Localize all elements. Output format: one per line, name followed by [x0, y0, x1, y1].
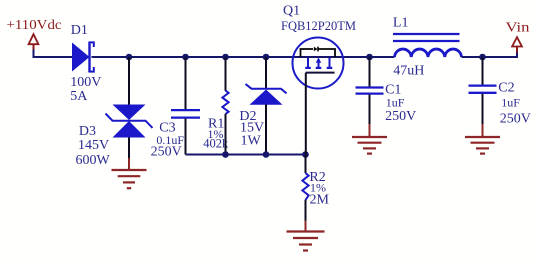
label R2 value 2M — [310, 193, 330, 208]
capacitor C1 — [356, 88, 384, 94]
label D2 value 15V — [240, 121, 264, 136]
junction dot D2 tap — [263, 54, 270, 61]
label D1 value 5A — [70, 89, 88, 104]
label C3 designator — [159, 120, 175, 135]
svg-text:5A: 5A — [70, 89, 88, 104]
wire C3 branch upper — [185, 57, 187, 109]
wire C1 to ground — [369, 95, 371, 137]
Q1 body black top bar — [301, 47, 336, 57]
TVS diode D3 — [106, 105, 153, 138]
label C2 designator — [498, 80, 514, 95]
power arrow Vin — [512, 37, 522, 52]
wire D2 branch upper — [265, 57, 267, 88]
ground below R2 — [287, 232, 325, 251]
label L1 designator — [393, 16, 409, 31]
svg-text:Q1: Q1 — [283, 3, 300, 18]
wire bottom rail C3 to R2 node — [186, 154, 306, 156]
svg-text:47uH: 47uH — [393, 63, 424, 78]
diode D1 — [72, 42, 94, 73]
power arrow +110Vdc — [29, 34, 39, 50]
label C2 value 250V — [500, 112, 531, 127]
svg-text:C2: C2 — [498, 80, 514, 95]
label C3 value 0.1uF — [156, 133, 184, 147]
resistor R2 — [302, 155, 308, 222]
svg-text:145V: 145V — [78, 138, 109, 153]
Q1 source contact — [305, 58, 311, 68]
junction dot C2 tap — [479, 54, 486, 61]
svg-text:1W: 1W — [241, 133, 262, 148]
label D1 value 100V — [70, 75, 101, 90]
wire C1 branch upper — [369, 57, 371, 87]
svg-text:2M: 2M — [310, 193, 330, 208]
wire R1 branch upper — [225, 57, 227, 91]
node Vin label — [506, 21, 530, 36]
label C3 value 250V — [151, 145, 182, 160]
wire C2 branch upper — [482, 57, 484, 85]
label C1 value 1uF — [386, 95, 405, 109]
svg-text:D1: D1 — [71, 23, 88, 38]
Q1 drain contact — [327, 58, 333, 68]
inductor L1 core lines — [393, 34, 460, 41]
wire D3 to ground — [128, 138, 130, 170]
inductor L1 winding — [395, 49, 462, 57]
svg-text:250V: 250V — [385, 109, 416, 124]
junction dot C3 tap — [182, 54, 189, 61]
svg-text:D3: D3 — [79, 124, 96, 139]
transistor Q1 circle — [293, 38, 344, 89]
wire from +110Vdc to D1 anode — [34, 50, 73, 58]
junction dot D3 tap — [126, 54, 133, 61]
capacitor C3 — [171, 110, 200, 118]
label D3 value 600W — [76, 153, 111, 168]
node +110Vdc label — [7, 18, 62, 33]
label Q1 part FQB12P20TM — [281, 18, 356, 33]
svg-text:250V: 250V — [500, 112, 531, 127]
wire C3 branch lower — [185, 119, 187, 155]
junction dot C1 tap — [366, 54, 373, 61]
wire Q1 gate lead down to node — [305, 73, 307, 155]
label C1 value 250V — [385, 109, 416, 124]
wire R1 branch lower — [225, 114, 227, 155]
wire rail L1 to Vin — [462, 52, 518, 57]
label D2 value 1W — [241, 133, 262, 148]
wire D3 branch upper — [128, 57, 130, 105]
label R2 designator — [309, 170, 325, 185]
svg-text:600W: 600W — [76, 153, 111, 168]
junction dot gate/R2 node — [302, 151, 309, 158]
wire R2 to ground red stub — [305, 221, 307, 231]
label D3 value 145V — [78, 138, 109, 153]
wire main rail D1 cathode to L1 — [92, 56, 395, 58]
svg-text:Vin: Vin — [506, 21, 530, 36]
label C2 value 1uF — [501, 95, 520, 109]
label R1 designator — [208, 116, 224, 131]
label R1 value 402k — [203, 137, 229, 151]
svg-text:L1: L1 — [393, 16, 409, 31]
label C1 designator — [385, 83, 401, 98]
svg-text:1uF: 1uF — [386, 95, 405, 109]
label D3 designator — [79, 124, 96, 139]
wire D2 branch lower — [265, 105, 267, 155]
ground below C2 — [465, 137, 500, 154]
label R1 tolerance 1% — [208, 127, 224, 141]
capacitor C2 — [469, 86, 497, 93]
junction dot R1 tap — [222, 54, 229, 61]
label D1 designator — [71, 23, 88, 38]
label Q1 designator — [283, 3, 300, 18]
resistor R1 — [222, 91, 228, 115]
zener diode D2 — [246, 84, 287, 105]
label L1 value 47uH — [393, 63, 424, 78]
svg-text:1uF: 1uF — [501, 95, 520, 109]
junction dot R1 bottom — [222, 151, 229, 158]
label R2 tolerance 1% — [310, 181, 326, 195]
junction dot D2 bottom — [263, 151, 270, 158]
svg-text:250V: 250V — [151, 145, 182, 160]
Q1 gate plate — [306, 72, 335, 74]
svg-text:+110Vdc: +110Vdc — [7, 18, 62, 33]
svg-text:100V: 100V — [70, 75, 101, 90]
wire C2 to ground — [482, 94, 484, 137]
Q1 bulk contact with arrow — [316, 57, 322, 68]
svg-text:FQB12P20TM: FQB12P20TM — [281, 18, 356, 33]
ground below D3 — [112, 170, 147, 188]
ground below C1 — [352, 137, 387, 154]
label D2 designator — [239, 109, 256, 124]
